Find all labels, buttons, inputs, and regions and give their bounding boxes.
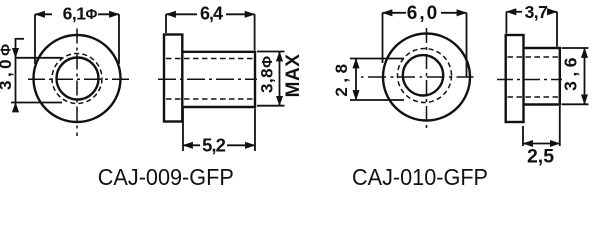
side view CAJ-009 hole hidden lines bbox=[166, 59, 255, 100]
dimension 2,8 extension lines bbox=[350, 59, 404, 101]
dimension 6,4 value label bbox=[200, 4, 223, 24]
part number label CAJ-009-GFP bbox=[98, 164, 234, 190]
svg-text:2,5: 2,5 bbox=[527, 146, 554, 168]
dimension 3,8-phi MAX extension lines bbox=[257, 52, 285, 106]
dimension 3,8-phi MAX dimension line bbox=[279, 52, 281, 106]
dimension 6,0 value label bbox=[407, 3, 439, 24]
dimension 6,1-phi value label bbox=[63, 4, 98, 24]
dimension 6,0 extension lines bbox=[383, 13, 467, 78]
svg-text:5,2: 5,2 bbox=[202, 135, 225, 156]
front view CAJ-009 hidden dashed circle bbox=[52, 54, 102, 104]
svg-text:3,0Φ: 3,0Φ bbox=[0, 44, 15, 90]
side view CAJ-010 flange bbox=[506, 35, 524, 122]
front view CAJ-009 vertical centerline bbox=[76, 29, 78, 137]
svg-text:3,6: 3,6 bbox=[561, 53, 581, 91]
front view CAJ-009 horizontal centerline bbox=[28, 78, 131, 80]
dimension 3,0-phi dimension line bbox=[16, 38, 25, 110]
front view CAJ-009 hole circle bbox=[57, 58, 99, 100]
svg-text:CAJ-010-GFP: CAJ-010-GFP bbox=[352, 164, 488, 190]
front view CAJ-010 hidden dashed circle bbox=[398, 49, 452, 103]
front view CAJ-009 outer circle bbox=[34, 35, 121, 122]
side view CAJ-009 centerline bbox=[158, 78, 257, 80]
dimension 6,4 dimension line bbox=[166, 13, 255, 15]
side view CAJ-010 hole hidden lines bbox=[508, 57, 560, 97]
dimension 2,8 dimension line bbox=[355, 59, 357, 101]
svg-text:3,8Φ: 3,8Φ bbox=[258, 56, 277, 93]
dimension 6,1-phi extension lines bbox=[35, 14, 119, 64]
dimension 3,6 extension lines bbox=[562, 48, 589, 104]
dimension 2,5 dimension line bbox=[523, 143, 560, 145]
side view CAJ-010 centerline bbox=[497, 79, 562, 81]
dimension 2,5 extension lines bbox=[523, 106, 560, 146]
dimension 3,7 value label bbox=[525, 2, 548, 22]
dimension 5,2 value label bbox=[202, 135, 225, 156]
svg-text:3,7: 3,7 bbox=[525, 2, 548, 22]
side view CAJ-009 flange bbox=[164, 35, 182, 122]
dimension 5,2 extension lines bbox=[183, 109, 255, 152]
front view CAJ-010 vertical centerline bbox=[426, 28, 428, 132]
svg-text:CAJ-009-GFP: CAJ-009-GFP bbox=[98, 164, 234, 190]
dimension 6,4 extension lines bbox=[166, 14, 255, 50]
dimension 3,8-phi value label bbox=[258, 56, 277, 93]
dimension 2,5 value label bbox=[527, 146, 554, 168]
dimension 6,0 dimension line bbox=[383, 12, 467, 14]
dimension 2,8 value label bbox=[332, 59, 351, 96]
dimension 3,0-phi extension lines bbox=[11, 58, 62, 103]
dimension 3,6 dimension line bbox=[584, 48, 586, 104]
front view CAJ-010 horizontal centerline bbox=[361, 76, 474, 78]
svg-text:6,4: 6,4 bbox=[200, 4, 223, 24]
front view CAJ-010 outer circle bbox=[383, 34, 470, 121]
dimension 3,7 dimension line bbox=[506, 11, 557, 13]
side view CAJ-010 body bbox=[524, 48, 560, 105]
svg-text:6,1Φ: 6,1Φ bbox=[63, 4, 98, 24]
svg-text:6,0: 6,0 bbox=[407, 3, 439, 24]
dimension MAX value label bbox=[283, 54, 304, 98]
svg-text:2,8: 2,8 bbox=[332, 59, 351, 96]
dimension 3,7 extension lines bbox=[506, 12, 557, 47]
dimension 3,0-phi value label bbox=[0, 44, 15, 90]
dimension 6,1-phi dimension line bbox=[35, 13, 119, 15]
svg-text:MAX: MAX bbox=[283, 54, 304, 98]
dimension 5,2 dimension line bbox=[183, 144, 255, 146]
dimension 3,6 value label bbox=[561, 53, 581, 91]
part number label CAJ-010-GFP bbox=[352, 164, 488, 190]
front view CAJ-010 hole circle bbox=[403, 55, 443, 95]
side view CAJ-009 body bbox=[182, 52, 255, 107]
